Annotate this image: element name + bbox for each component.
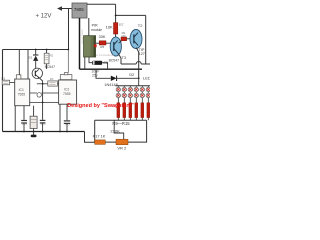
resistor R4 [48, 81, 58, 86]
wire LED to resistor 2 [123, 98, 125, 103]
wire PIR ground pin [84, 57, 86, 69]
IC1 7555 [15, 79, 30, 106]
wire IC1 pin to C2 [33, 106, 35, 117]
svg-text:R2: R2 [50, 53, 54, 57]
wire IC1 to IC2 lower [30, 101, 59, 103]
zener D1 [35, 50, 37, 56]
capacitor C5 above IC2 [60, 75, 72, 80]
node junction dot R3 [46, 49, 48, 51]
capacitor C4a [40, 120, 46, 121]
resistor R7 [114, 23, 118, 34]
wire IC1 to IC2 upper [30, 92, 59, 94]
LED column 2 lead [123, 86, 125, 88]
svg-text:R9—R15: R9—R15 [112, 121, 130, 126]
svg-text:R4: R4 [50, 77, 54, 81]
svg-text:10K: 10K [106, 25, 113, 30]
wire rail U with hop [136, 62, 150, 65]
svg-text:R5: R5 [100, 45, 104, 49]
svg-text:swag innov: swag innov [80, 29, 84, 45]
wire LED to resistor 3 [129, 98, 131, 103]
resistor R6 [121, 37, 127, 41]
wire LED to resistor 1 [117, 98, 119, 103]
wire +12V input line [58, 8, 72, 10]
wire T1 emitter to rail U [118, 53, 136, 64]
wire left border [2, 50, 4, 132]
svg-text:D1: D1 [29, 56, 33, 60]
wire mid horizontal rail [80, 68, 143, 70]
capacitor C1 [21, 120, 27, 121]
resistor R10 [123, 103, 126, 118]
node junction dot [42, 83, 44, 85]
svg-text:PIR: PIR [92, 24, 98, 28]
svg-text:R17 1K: R17 1K [93, 134, 106, 138]
svg-text:module: module [91, 28, 102, 32]
wire C3 right lead [102, 63, 107, 69]
ground symbol [33, 132, 35, 135]
svg-text:LED: LED [143, 76, 150, 81]
wire D2 to LED rail [138, 78, 140, 85]
transistor T2 TIP127 [130, 30, 142, 49]
node IC1 top tab [16, 75, 21, 79]
wire LED to resistor 5 [141, 98, 143, 103]
svg-text:R1: R1 [1, 76, 5, 80]
wire resistor 2 to return rail 2 [123, 118, 125, 121]
svg-text:25v: 25v [92, 73, 98, 77]
wire Q1 emitter down [39, 78, 42, 120]
capacitor C3 [92, 61, 102, 65]
node loop on wire [37, 93, 41, 97]
wire R4 to IC2 [58, 83, 59, 85]
wire +V rail [3, 49, 69, 51]
node +12V arrow head [57, 6, 62, 11]
IC2 7555 [59, 80, 77, 104]
LED D6a [146, 87, 150, 91]
svg-text:127: 127 [139, 52, 145, 56]
transistor Q1 BC547 [32, 68, 42, 78]
LED D3b [128, 93, 132, 97]
resistor R11 [129, 103, 132, 118]
LED column 6 lead [147, 86, 149, 88]
LED column 5 lead [141, 86, 143, 88]
wire 7805 output to right [87, 3, 116, 5]
wire LED link 5 [141, 92, 143, 94]
wire T2 emitter down [136, 48, 138, 79]
svg-text:100: 100 [121, 34, 126, 38]
LED D1b [116, 93, 120, 97]
LED D4b [134, 93, 138, 97]
svg-text:7555: 7555 [63, 92, 71, 96]
wire LED link 4 [135, 92, 137, 94]
wire LED link 2 [123, 92, 125, 94]
svg-text:1N4148: 1N4148 [104, 83, 117, 87]
svg-text:33K: 33K [99, 35, 106, 39]
wire ground rail to R17 [85, 132, 95, 143]
wire IC1 supply [18, 50, 20, 75]
LED column 4 lead [135, 86, 137, 88]
wire LED link 1 [117, 92, 119, 94]
svg-text:7555: 7555 [18, 92, 26, 96]
diode D2 1N4148 [111, 76, 117, 81]
LED D5b [140, 93, 144, 97]
LED D3a [128, 87, 132, 91]
wire IC1 pin down left [14, 106, 16, 132]
wire vertical to T2 collector [145, 15, 147, 64]
svg-text:BC547: BC547 [45, 65, 55, 69]
wire resistor 4 to return rail 4 [135, 118, 137, 121]
wire IC1 pin to C1 [23, 106, 25, 120]
LED column 3 lead [129, 86, 131, 88]
wire IC2 pin to C6 [66, 104, 68, 120]
LED D2b [122, 93, 126, 97]
svg-text:BC547: BC547 [109, 59, 119, 63]
wire LED anode rail [116, 85, 151, 87]
wire VR2 to right riser [128, 120, 147, 142]
svg-text:+ 12V: + 12V [36, 13, 52, 19]
node junction dot rail branch [115, 15, 117, 17]
LED D5a [140, 87, 144, 91]
wire R6 to T2 base [127, 38, 131, 40]
capacitor C6 [64, 120, 70, 121]
wire LED link 6 [147, 92, 149, 94]
svg-text:T3: T3 [122, 56, 126, 60]
wire R17 to VR2 [105, 141, 116, 143]
wire R5 to T1 base [96, 42, 111, 44]
node junction dot [67, 49, 69, 51]
wire R1 to IC1 [10, 81, 15, 83]
wire down to R17 [94, 120, 96, 142]
svg-text:R7: R7 [119, 23, 124, 27]
wire resistor 6 to return rail 6 [147, 118, 149, 121]
svg-text:w innovations: w innovations [96, 53, 115, 57]
node junction dot [42, 102, 44, 104]
svg-text:Designed by "Swagatam": Designed by "Swagatam" [67, 103, 134, 109]
svg-text:T2: T2 [138, 23, 143, 28]
LED array and resistors R9-R15 [116, 86, 150, 121]
LED D6b [146, 93, 150, 97]
wire vertical to R7 [115, 4, 117, 22]
LED D2a [122, 87, 126, 91]
wire resistor 3 to return rail 3 [129, 118, 131, 121]
svg-text:IC2: IC2 [64, 87, 69, 91]
wire Q1 to R4 [37, 83, 48, 85]
wire LED link 3 [129, 92, 131, 94]
wire VR2 wiper [114, 120, 124, 139]
LED column 1 lead [117, 86, 119, 88]
node junction dot D2 [138, 77, 140, 79]
wire 7805 ground down [79, 18, 81, 69]
resistor R14 [147, 103, 150, 118]
svg-text:7805: 7805 [74, 7, 84, 12]
resistor R13 [141, 103, 144, 118]
resistor R12 [135, 103, 138, 118]
wire R7 to T1 [115, 34, 117, 37]
svg-text:IC1: IC1 [19, 88, 24, 92]
wire rail to C5 [67, 50, 69, 73]
wire IC1 pin to rail [27, 50, 29, 80]
wire 7805 to PIR module [88, 18, 90, 36]
wire LED to resistor 6 [147, 98, 149, 103]
node junction dot D1 [35, 49, 37, 51]
resistor R5 [99, 41, 106, 45]
PIR module board [84, 36, 96, 57]
wire resistor 5 to return rail 5 [141, 118, 143, 121]
node rail junction dots [23, 131, 25, 133]
svg-text:D2: D2 [129, 73, 134, 77]
svg-text:+: + [27, 59, 29, 63]
wire PIR to C3 [89, 57, 92, 63]
wire LED to resistor 4 [135, 98, 137, 103]
wire branch to T2 [116, 14, 146, 16]
node PIR output pad [94, 44, 97, 47]
svg-text:VR 2: VR 2 [117, 145, 127, 150]
wire bottom ground rail [3, 131, 85, 133]
regulator 7805 [72, 3, 87, 18]
wire D2 branch [96, 69, 111, 78]
LED D4a [134, 87, 138, 91]
transistor T1 BC547 [110, 37, 121, 56]
wire +12V feed down [68, 9, 70, 50]
wire resistor 1 to return rail 1 [117, 118, 119, 121]
LED D1a [116, 87, 120, 91]
resistor R9 [117, 103, 120, 118]
wire LED return rail [95, 119, 147, 121]
capacitor C2 electrolytic [30, 116, 37, 128]
potentiometer VR2 [116, 139, 128, 145]
wire IC2 pin down [59, 104, 61, 131]
wire R7 junction to R6 [119, 41, 121, 43]
resistor R3 vertical [44, 53, 49, 64]
